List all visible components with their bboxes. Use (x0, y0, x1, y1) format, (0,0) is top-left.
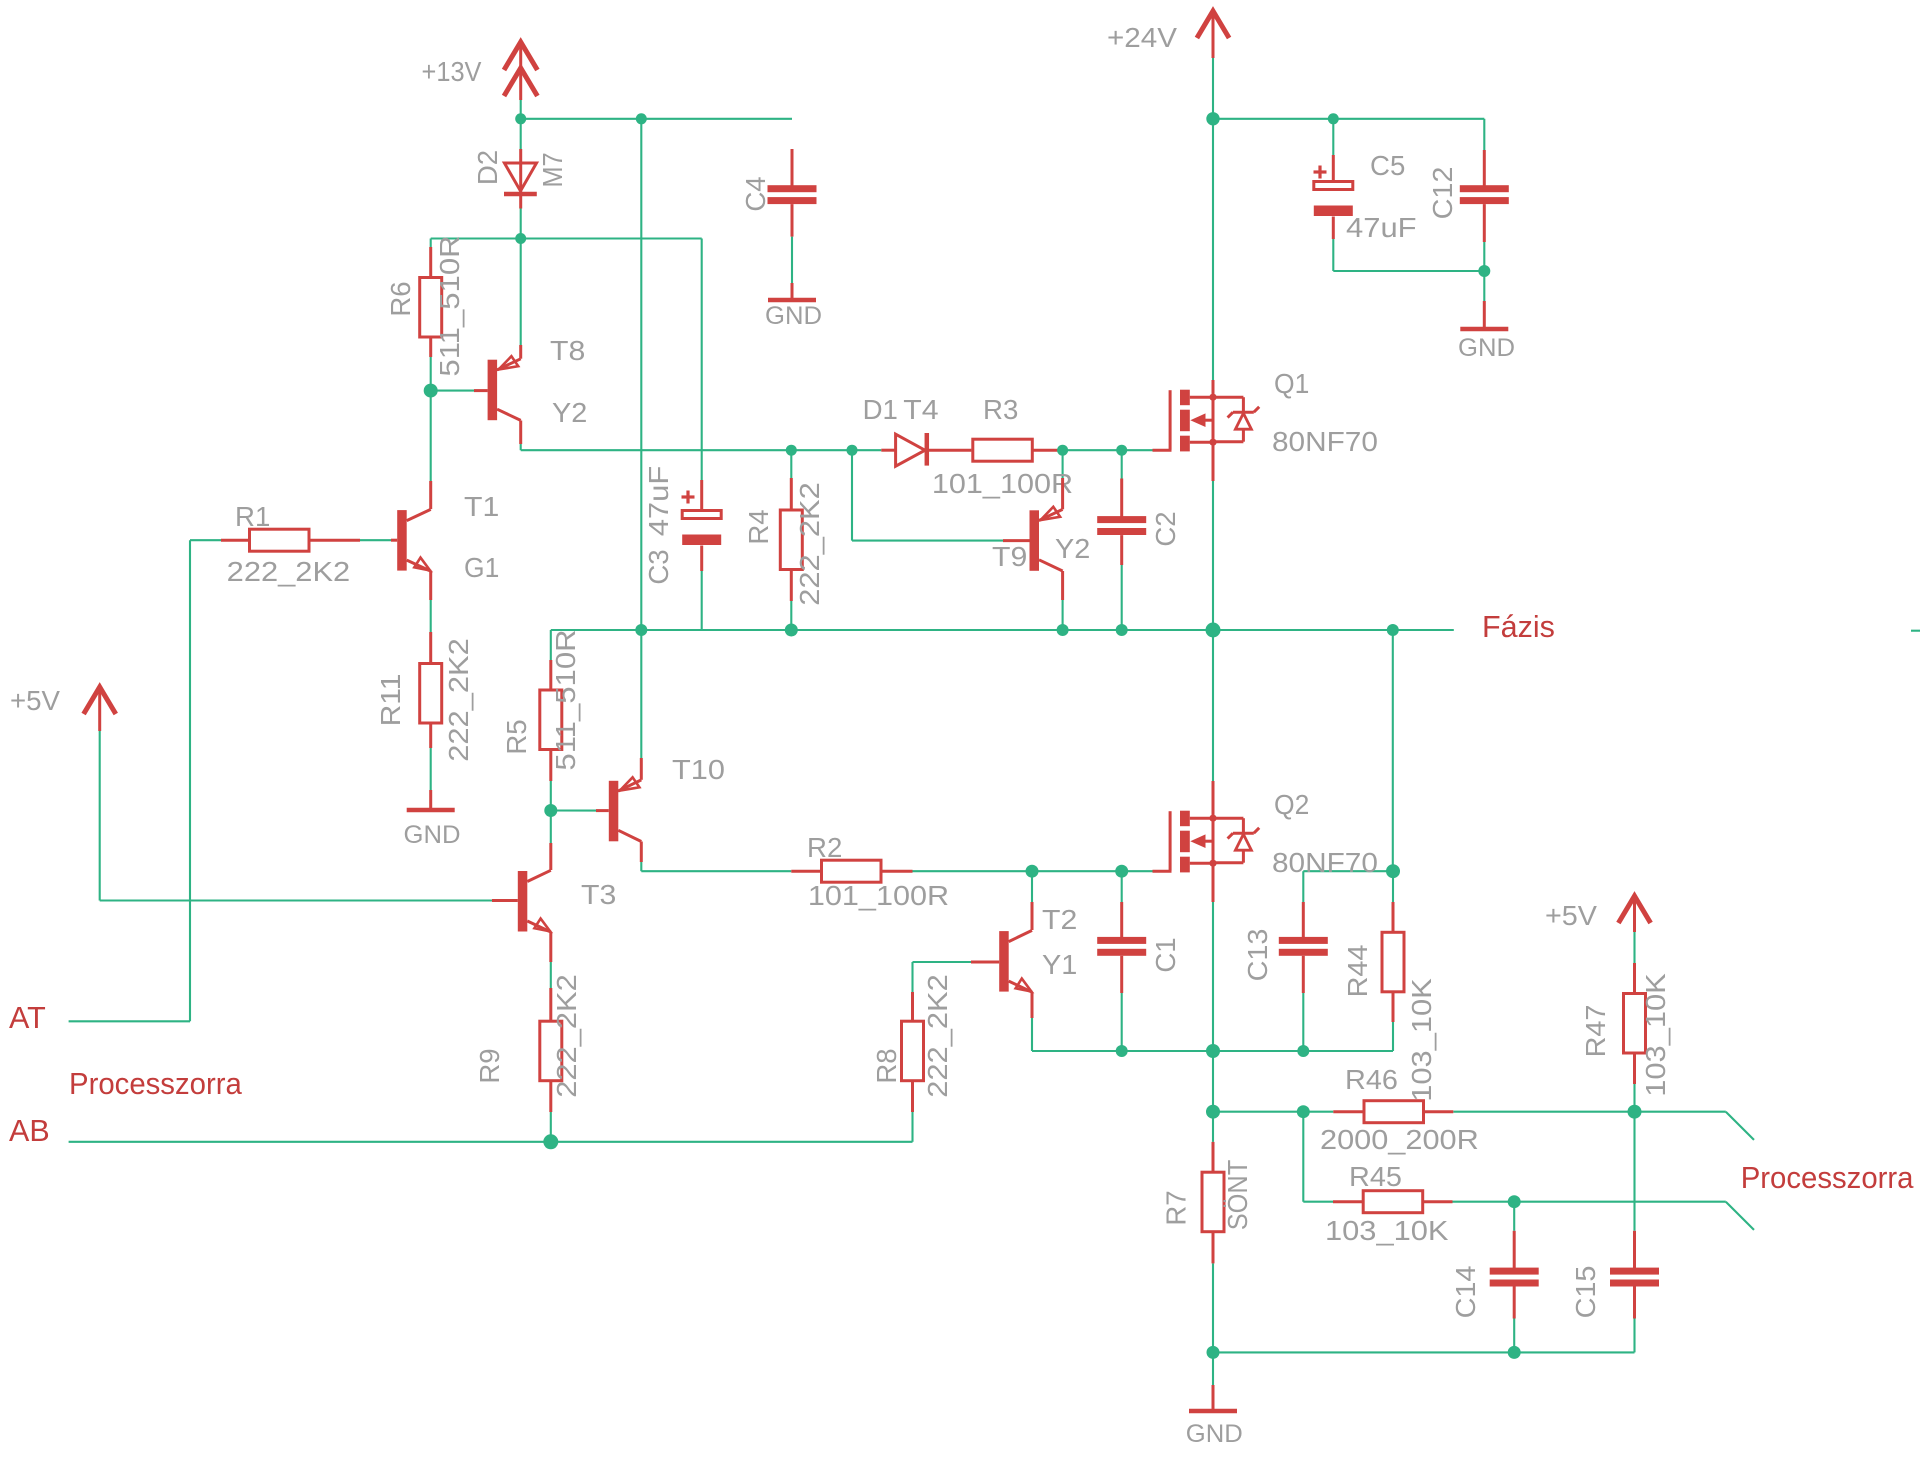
wire R1 to T1 base (360, 539, 391, 541)
svg-text:Q2: Q2 (1274, 789, 1309, 820)
ground C12 (1458, 301, 1515, 362)
wire R5 bottom link (550, 781, 552, 811)
svg-text:GND: GND (1458, 334, 1515, 362)
net label Processzorra right (1741, 1161, 1914, 1195)
wire R9 bottom link (550, 1112, 552, 1142)
wire R44 top link (1392, 871, 1394, 902)
resistor R46 (1333, 1101, 1453, 1123)
wire R6 top link (430, 239, 432, 248)
wire C14 top link (1513, 1202, 1515, 1231)
label Q1 80NF70 (1272, 426, 1378, 457)
label R46 value (1320, 1124, 1479, 1155)
svg-text:222_2K2: 222_2K2 (227, 556, 351, 587)
wire Fazis drop to R44 (1392, 630, 1394, 871)
svg-text:R6: R6 (385, 281, 416, 316)
svg-text:2000_200R: 2000_200R (1320, 1124, 1479, 1155)
svg-text:Y1: Y1 (1042, 949, 1077, 980)
wire R46 row right (1453, 1111, 1726, 1113)
wire bottom GND rail (1213, 1351, 1635, 1353)
svg-text:C3: C3 (643, 549, 674, 584)
label R44 value (1406, 978, 1437, 1102)
ground R11 (404, 790, 461, 849)
label R1 (235, 501, 270, 532)
wire T3 emitter link (550, 962, 552, 988)
svg-text:222_2K2: 222_2K2 (551, 974, 582, 1098)
wire T2 collector link (1031, 871, 1033, 902)
wire T10 base link (551, 809, 596, 811)
wire T2 emitter link (1031, 1018, 1033, 1051)
label Q2 80NF70 (1272, 847, 1378, 878)
label R44 (1342, 945, 1373, 998)
wire Q2 drain link (1212, 630, 1214, 781)
label C14 (1450, 1266, 1481, 1319)
label R7 value SONT (1222, 1160, 1253, 1231)
svg-text:R1: R1 (235, 501, 270, 532)
label R6 (385, 281, 416, 316)
svg-text:Fázis: Fázis (1482, 610, 1555, 644)
label D2 (472, 150, 503, 185)
label R5 value (550, 629, 581, 770)
net label Fazis (1482, 610, 1555, 644)
svg-text:D1: D1 (863, 394, 898, 425)
label R4 (743, 509, 774, 544)
wire +24V stub (1212, 58, 1214, 119)
label +5V left (10, 685, 61, 716)
wire D2 junction row (431, 237, 702, 239)
transistor T3 (492, 843, 551, 962)
wire C14 bottom link (1513, 1319, 1515, 1353)
label R3 value (932, 468, 1073, 499)
wire +5V left riser (99, 731, 101, 901)
svg-text:103_10K: 103_10K (1640, 973, 1671, 1097)
transistor T9 (1003, 478, 1063, 600)
svg-text:101_100R: 101_100R (932, 468, 1073, 499)
svg-text:+24V: +24V (1107, 22, 1178, 53)
capacitor C3 (682, 480, 721, 630)
svg-text:47uF: 47uF (643, 466, 674, 537)
wire R5 top link (550, 630, 552, 660)
svg-text:222_2K2: 222_2K2 (794, 482, 825, 606)
wire AT row (69, 1020, 190, 1022)
wire R6 bottom link (430, 357, 432, 391)
wire R8 bottom link (911, 1112, 913, 1142)
label C3 value (643, 466, 674, 537)
capacitor C4 (768, 149, 817, 237)
svg-text:R11: R11 (375, 674, 406, 727)
wire R4 top link (790, 450, 792, 478)
wire Q2 source link (1212, 902, 1214, 1051)
label C15 (1570, 1266, 1601, 1319)
resistor R47 (1624, 963, 1646, 1084)
wire R11 bottom link (430, 748, 432, 790)
svg-text:80NF70: 80NF70 (1272, 426, 1378, 457)
svg-text:Processzorra: Processzorra (69, 1067, 242, 1101)
resistor R5 (540, 660, 562, 781)
wire R7 top link (1212, 1112, 1214, 1142)
wire C5 top link (1332, 119, 1334, 155)
transistor T2 (971, 902, 1032, 1018)
svg-text:C14: C14 (1450, 1266, 1481, 1319)
label T9 (992, 541, 1027, 572)
wire R46 exit diagonal (1726, 1112, 1754, 1140)
svg-text:R44: R44 (1342, 945, 1373, 998)
label T2 Y1 (1042, 949, 1077, 980)
svg-text:R7: R7 (1161, 1190, 1192, 1225)
label T1 G1 (464, 552, 499, 583)
resistor R4 (780, 478, 802, 601)
svg-text:GND: GND (404, 821, 461, 849)
svg-text:R5: R5 (501, 719, 532, 754)
wire Q1 drain link (1212, 119, 1214, 380)
label T8 (550, 335, 585, 366)
wire Q2 source to R7 (1212, 1051, 1214, 1112)
mosfet Q2 (1153, 781, 1260, 902)
wire D2 cathode link (520, 209, 522, 239)
svg-text:SÖNT: SÖNT (1222, 1160, 1253, 1231)
label +13V (422, 56, 483, 87)
wire C2 bottom link (1121, 565, 1123, 630)
label T3 (581, 879, 616, 910)
resistor R1 (221, 529, 360, 551)
svg-text:T3: T3 (581, 879, 616, 910)
label R4 value (794, 482, 825, 606)
svg-text:C4: C4 (740, 176, 771, 211)
label T1 (464, 491, 499, 522)
wire R45 exit diagonal (1726, 1202, 1754, 1230)
label R3 (983, 394, 1018, 425)
label R11 (375, 674, 406, 727)
transistor T8 (474, 345, 521, 444)
resistor R8 (902, 992, 924, 1112)
wire R46 row left (1213, 1111, 1333, 1113)
wire Fazis right stub (1911, 630, 1920, 632)
wire R44 bottom link (1392, 1022, 1394, 1051)
svg-text:103_10K: 103_10K (1325, 1215, 1449, 1246)
svg-text:T4: T4 (903, 394, 938, 425)
label C3 plus (682, 491, 695, 504)
label R8 value (922, 974, 953, 1098)
label T2 (1042, 904, 1077, 935)
wire R7 bottom link (1212, 1263, 1214, 1352)
capacitor C5 (1314, 155, 1353, 239)
label R8 (871, 1048, 902, 1083)
label R2 (807, 832, 842, 863)
wire T9 base drop (852, 450, 1003, 540)
label C3 (643, 549, 674, 584)
wire R46-R45 drop (1302, 1112, 1304, 1202)
capacitor C15 (1610, 1231, 1659, 1319)
svg-text:222_2K2: 222_2K2 (922, 974, 953, 1098)
supply +13V arrow (504, 42, 537, 100)
label R11 value (443, 638, 474, 762)
svg-text:101_100R: 101_100R (808, 880, 949, 911)
supply +5V arrow left (84, 687, 116, 731)
svg-text:+5V: +5V (1545, 900, 1598, 931)
label R1 value (227, 556, 351, 587)
capacitor C13 (1279, 902, 1328, 993)
wire R45 row left (1303, 1201, 1333, 1203)
resistor R11 (420, 632, 442, 748)
wire AT riser (189, 540, 191, 1021)
wire R7 gnd link (1212, 1352, 1214, 1385)
wire Fazis row (551, 629, 1454, 631)
wire C5 bottom link (1333, 239, 1484, 271)
wire G column (to C3) (701, 239, 703, 481)
svg-text:AB: AB (9, 1114, 50, 1148)
label D1 (863, 394, 898, 425)
capacitor C12 (1460, 150, 1509, 242)
svg-text:80NF70: 80NF70 (1272, 847, 1378, 878)
label R46 (1345, 1064, 1398, 1095)
svg-text:C1: C1 (1150, 937, 1181, 972)
wire R45 row right (1453, 1201, 1726, 1203)
label R7 (1161, 1190, 1192, 1225)
wire R47 top link (1633, 932, 1635, 963)
diode D1 (881, 433, 971, 466)
wire Q1 source link (1212, 481, 1214, 630)
label C5 plus (1314, 166, 1327, 179)
wire C13 bottom link (1302, 993, 1304, 1051)
svg-text:T2: T2 (1042, 904, 1077, 935)
wire T3 collector link (550, 811, 552, 844)
svg-text:R9: R9 (474, 1048, 505, 1083)
wire +24V rail (1213, 118, 1484, 120)
svg-text:511_510R: 511_510R (434, 235, 465, 376)
wire T10 collector corner (640, 862, 642, 871)
label R9 (474, 1048, 505, 1083)
svg-text:222_2K2: 222_2K2 (443, 638, 474, 762)
svg-text:T10: T10 (672, 754, 725, 785)
capacitor C14 (1490, 1231, 1539, 1319)
wire +13V stub (520, 95, 522, 119)
svg-text:C5: C5 (1370, 150, 1405, 181)
resistor R45 (1333, 1191, 1453, 1213)
label R6 value (434, 235, 465, 376)
transistor T1 (391, 481, 431, 600)
wire C13 top link (1302, 871, 1304, 902)
wire T8 collector corner (520, 444, 522, 450)
svg-text:R4: R4 (743, 509, 774, 544)
wire F column (640, 119, 642, 758)
svg-text:47uF: 47uF (1346, 212, 1417, 243)
label C5 value (1346, 212, 1417, 243)
svg-text:Processzorra: Processzorra (1741, 1161, 1914, 1195)
wire R3 to T9 junction (1055, 449, 1153, 451)
capacitor C1 (1097, 902, 1146, 993)
wire +13V rail (521, 118, 792, 120)
label C5 (1370, 150, 1405, 181)
resistor R3 (971, 439, 1062, 461)
svg-text:G1: G1 (464, 552, 499, 583)
svg-text:Y2: Y2 (1055, 533, 1090, 564)
label T8 Y2 (552, 397, 587, 428)
wire C12 bottom link (1483, 242, 1485, 301)
ground C4 (765, 283, 822, 330)
wire T9 collector link (1062, 600, 1064, 630)
label R2 value (808, 880, 949, 911)
label +24V (1107, 22, 1178, 53)
label M7 (537, 152, 568, 187)
wire T2 base link (913, 961, 972, 963)
label R47 (1580, 1005, 1611, 1058)
wire R47 to C15 (1633, 1112, 1635, 1231)
wire T9 emitter link (1062, 450, 1064, 478)
label C2 (1150, 511, 1181, 546)
svg-text:+5V: +5V (10, 685, 61, 716)
svg-text:T9: T9 (992, 541, 1027, 572)
supply +24V arrow (1197, 11, 1229, 58)
wire T1 emitter link (430, 600, 432, 632)
label R5 (501, 719, 532, 754)
label T10 (672, 754, 725, 785)
wire C1 top link (1121, 871, 1123, 902)
label C12 (1427, 167, 1458, 220)
capacitor C2 (1097, 479, 1146, 566)
supply +5V arrow right (1618, 896, 1650, 932)
svg-text:C13: C13 (1242, 929, 1273, 982)
label R45 (1349, 1161, 1402, 1192)
wire gate row (450) (521, 449, 882, 451)
resistor R7 shunt (1202, 1142, 1224, 1264)
svg-text:Q1: Q1 (1274, 368, 1309, 399)
svg-text:103_10K: 103_10K (1406, 978, 1437, 1102)
label T4 (903, 394, 938, 425)
net label AB (9, 1114, 50, 1148)
svg-text:AT: AT (9, 1001, 46, 1035)
svg-text:+13V: +13V (422, 56, 483, 87)
wire T8 base link (431, 390, 474, 392)
svg-text:C12: C12 (1427, 167, 1458, 220)
svg-text:C15: C15 (1570, 1266, 1601, 1319)
label R47 value (1640, 973, 1671, 1097)
wire T1 collector link (430, 391, 432, 481)
svg-text:GND: GND (765, 302, 822, 330)
wire R2 row left (641, 870, 791, 872)
svg-text:Y2: Y2 (552, 397, 587, 428)
resistor R9 (540, 988, 562, 1112)
diode D2 (504, 149, 537, 209)
label Q1 (1274, 368, 1309, 399)
label C4 (740, 176, 771, 211)
resistor R44 (1382, 902, 1404, 1022)
wire D2 anode link (520, 119, 522, 149)
wire R2 row right (913, 870, 1153, 872)
wire C1 bottom link (1121, 993, 1123, 1051)
svg-text:511_510R: 511_510R (550, 629, 581, 770)
wire AB row (69, 1141, 913, 1143)
wire T8 emitter link (520, 243, 522, 345)
svg-text:R46: R46 (1345, 1064, 1398, 1095)
wire R4 bottom link (790, 601, 792, 630)
svg-text:C2: C2 (1150, 511, 1181, 546)
wire C2 top link (1121, 450, 1123, 478)
resistor R2 (791, 860, 912, 882)
svg-text:T1: T1 (464, 491, 499, 522)
net label Processzorra left (69, 1067, 242, 1101)
label T9 Y2 (1055, 533, 1090, 564)
wire C13 link row (1303, 870, 1393, 872)
label R9 value (551, 974, 582, 1098)
wire AT to R1 (190, 539, 221, 541)
wire R47 bottom link (1633, 1084, 1635, 1112)
net label AT (9, 1001, 46, 1035)
svg-text:M7: M7 (537, 152, 568, 187)
label C1 (1150, 937, 1181, 972)
wire bottom row (source net) (1032, 1050, 1393, 1052)
wire R8 top link (911, 962, 913, 992)
svg-text:T8: T8 (550, 335, 585, 366)
label +5V right (1545, 900, 1598, 931)
label R45 value (1325, 1215, 1449, 1246)
wire C12 top link (1483, 119, 1485, 150)
svg-text:R3: R3 (983, 394, 1018, 425)
resistor R6 (420, 247, 442, 357)
svg-text:R45: R45 (1349, 1161, 1402, 1192)
wire C15 bottom link (1633, 1319, 1635, 1353)
svg-text:R8: R8 (871, 1048, 902, 1083)
svg-text:R2: R2 (807, 832, 842, 863)
svg-text:D2: D2 (472, 150, 503, 185)
label C13 (1242, 929, 1273, 982)
wire C4 bottom link (791, 237, 793, 283)
ground R7 (1186, 1385, 1243, 1448)
svg-text:GND: GND (1186, 1420, 1243, 1448)
label Q2 (1274, 789, 1309, 820)
transistor T10 (596, 758, 641, 862)
wire +5V to T3 base (100, 899, 492, 901)
mosfet Q1 (1153, 380, 1260, 481)
svg-text:R47: R47 (1580, 1005, 1611, 1058)
